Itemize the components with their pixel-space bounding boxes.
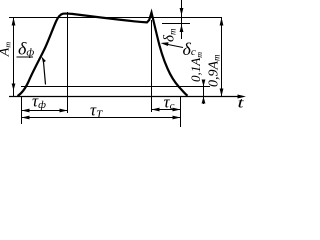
tau_f right extension line	[67, 12, 69, 113]
Am top arrowhead	[12, 18, 16, 26]
tau_t left arrowhead	[22, 116, 30, 120]
Am bottom arrowhead	[12, 84, 16, 91]
droop level extension line	[162, 23, 190, 25]
0.9Am upper arrowhead	[220, 18, 224, 26]
0.1 level line	[21, 86, 210, 88]
svg-text:τф: τф	[32, 92, 46, 112]
svg-text:δф: δф	[18, 39, 34, 59]
pulse waveform	[18, 13, 188, 97]
0.9Am dimension line	[221, 18, 223, 97]
svg-text:τс: τс	[164, 93, 175, 113]
top amplitude level line	[9, 17, 222, 19]
0.1Am upper arrowhead	[202, 80, 206, 87]
tau_c dimension line	[152, 109, 181, 111]
tau_c left extension line	[151, 20, 153, 112]
tau_t (duration) dimension line	[22, 117, 181, 119]
svg-text:t: t	[238, 95, 245, 112]
tau_c left arrowhead	[152, 108, 160, 112]
0.1Am dimension line	[203, 80, 205, 104]
svg-text:τT: τT	[90, 101, 103, 121]
delta_t upper dimension arrow line	[181, 0, 183, 39]
delta_t upper arrowhead	[180, 8, 184, 16]
Am dimension line (left)	[13, 18, 15, 97]
baseline / t axis	[9, 96, 243, 98]
delta_f pointer shaft	[44, 62, 46, 85]
delta_f leader underline	[17, 56, 34, 58]
delta_c leader arrowhead	[161, 42, 169, 46]
tau_t right arrowhead	[173, 116, 181, 120]
0.9Am lower arrowhead	[220, 89, 224, 97]
tau_f dimension line	[22, 110, 68, 112]
tau_f left extension line	[21, 97, 23, 125]
delta_t lower arrowhead	[180, 25, 184, 33]
svg-text:δс: δс	[183, 39, 196, 59]
delta_f leader arrowhead	[42, 57, 46, 63]
delta_c leader line	[163, 44, 183, 48]
tau_c right extension line	[180, 97, 182, 128]
tau_f left arrowhead	[22, 109, 30, 113]
tau_f right arrowhead	[60, 109, 68, 113]
svg-text:Aт: Aт	[0, 42, 13, 58]
svg-text:0,9Aт: 0,9Aт	[207, 54, 222, 87]
0.1Am lower arrowhead	[202, 97, 206, 104]
svg-text:δт: δт	[162, 28, 178, 42]
t axis arrowhead	[238, 95, 247, 99]
tau_c right arrowhead	[173, 108, 181, 112]
